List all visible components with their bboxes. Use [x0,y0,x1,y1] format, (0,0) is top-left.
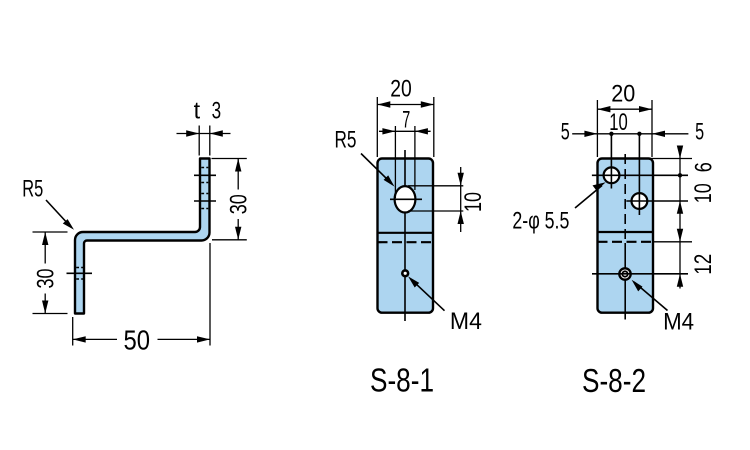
svg-text:5: 5 [561,118,570,145]
dimension t 3 [198,126,200,156]
dimension 20 (middle top) [376,97,378,157]
svg-text:6: 6 [691,162,718,172]
plate S-8-1 [378,159,434,313]
M4 tapped hole symbol [619,268,630,279]
dot hole1 centerline [609,132,613,136]
dimension 30 (lower left) [33,231,68,233]
hole1 vertical centerline [610,134,612,189]
M4 centerline vertical [624,243,626,320]
M4 leader right [634,282,668,311]
hole2 center tick [194,200,216,202]
M4 leader middle [411,279,445,311]
svg-text:t: t [194,97,201,124]
svg-text:20: 20 [390,76,412,103]
hole2 phi5.5 [632,193,648,209]
chained dimension line 5 / 10 / 5 [572,133,688,135]
svg-text:7: 7 [402,107,410,134]
hidden hole lines lower leg M4 [76,267,83,269]
svg-text:2-φ 5.5: 2-φ 5.5 [512,207,569,234]
2-phi5.5 leader [575,186,602,209]
svg-text:R5: R5 [22,176,43,203]
bracket body [75,159,210,314]
plate top extension line right [645,158,693,160]
dimension 30 (upper right) [212,158,247,160]
M4 horizontal centerline [592,273,688,275]
svg-text:S-8-2: S-8-2 [582,362,646,399]
dimension 10 (slot height, middle right) [408,185,463,187]
svg-text:10: 10 [609,109,628,136]
svg-text:M4: M4 [663,309,694,336]
svg-text:S-8-1: S-8-1 [370,362,434,399]
bend line dashed [378,241,434,243]
slot hole R5 [395,186,416,212]
svg-text:30: 30 [226,194,253,214]
hole horizontal centerline [390,198,422,200]
svg-text:20: 20 [611,81,635,108]
svg-text:30: 30 [33,269,60,289]
svg-text:12: 12 [690,254,717,275]
hole1 phi5.5 [604,167,620,183]
svg-text:10: 10 [460,192,487,212]
dimension 50 (bottom) [72,317,74,346]
svg-text:3: 3 [212,97,222,124]
svg-text:10: 10 [690,183,717,203]
dimension 7 (slot width) [394,126,396,198]
vertical centerline [404,150,406,321]
svg-text:M4: M4 [450,308,482,335]
right side chained dimension line [679,146,681,289]
bend line solid [378,232,434,234]
bend line solid [598,231,654,233]
center dashed line [624,154,626,243]
M4 pilot circle [402,270,408,276]
hidden hole lines upper leg hole2 [201,193,208,195]
hole1 horizontal centerline [592,174,688,176]
hole1 center tick [194,174,216,176]
svg-text:R5: R5 [335,127,357,154]
svg-text:50: 50 [124,325,151,356]
hole2 horizontal centerline [626,200,688,202]
plate S-8-2 [598,159,654,313]
bend level extension line right [654,241,693,243]
R5 leader [46,200,70,226]
hole2 vertical centerline [638,134,640,215]
dot hole2 centerline [637,132,641,136]
bend line dashed [598,241,654,243]
dimension 20 (right top) [596,100,598,157]
svg-text:5: 5 [695,118,704,145]
M4 center tick [67,272,93,274]
R5 leader middle [361,154,391,184]
hidden hole lines upper leg hole1 [201,167,208,169]
